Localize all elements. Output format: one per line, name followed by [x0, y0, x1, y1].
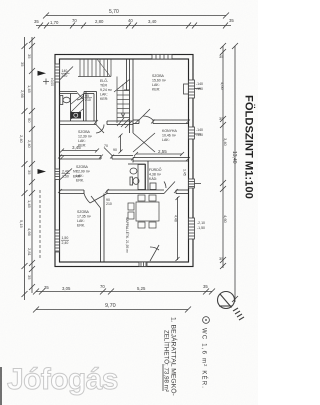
door bathroom: [164, 182, 175, 194]
room label eloter: [100, 78, 113, 101]
window right R1: [189, 80, 201, 98]
dining table: [136, 202, 159, 221]
window label 140/270: [62, 69, 68, 78]
dim line left C: [22, 37, 28, 300]
window label R1: [196, 82, 203, 91]
wall junction ticks: [58, 120, 190, 194]
wall interior hall right (stairs side): [130, 59, 134, 133]
paper noise: [0, 0, 1, 1]
dim line bottom H: [33, 307, 191, 313]
north circle: [218, 292, 235, 309]
level cross 1: [43, 79, 49, 85]
window right R3: [189, 218, 195, 239]
washer: [150, 183, 156, 190]
dim line right F: [232, 43, 238, 302]
room label konyha: [162, 129, 177, 142]
door WC: [77, 93, 84, 101]
door labels 70 90: [104, 144, 117, 152]
bathroom toilet: [130, 177, 139, 185]
wall kitchen bottom: [60, 156, 189, 163]
room label szoba A: [78, 130, 93, 148]
dim labels left C: [19, 62, 25, 229]
dim labels top B: [34, 18, 234, 25]
dim labels right E: [219, 54, 228, 261]
door top-right room: [139, 109, 153, 120]
dim vertical room A: [119, 134, 123, 154]
wall outer: [55, 55, 193, 267]
chairs: [128, 195, 156, 228]
window label 2,40/1,50: [62, 170, 81, 179]
dim line top A: [43, 13, 229, 19]
note circle wc: [203, 317, 210, 324]
scan edge left: [0, 367, 2, 405]
dim line right E: [220, 43, 226, 269]
room label furdo: [149, 167, 162, 181]
door corridor: [96, 125, 104, 134]
door bottom-left room: [84, 194, 107, 204]
wall interior corridor (thick): [60, 121, 134, 125]
dim 3,45 interior: [60, 149, 99, 153]
dim labels bottom G: [44, 284, 208, 291]
stairs rail wall: [124, 59, 130, 90]
dim line bottom G: [33, 289, 215, 295]
door label 95/210: [85, 94, 91, 102]
window left W1: [55, 64, 73, 82]
dim 2,55 interior kitchen: [134, 152, 184, 156]
interior dim 4,40: [176, 196, 180, 261]
wall interior WC top: [60, 92, 97, 122]
window top T1: [152, 55, 172, 60]
dim labels left D: [27, 54, 32, 280]
dim line left D: [29, 37, 35, 293]
stairs arrow: [97, 59, 125, 117]
window left W2: [55, 169, 72, 181]
entrance arrow 2: [38, 169, 47, 174]
toilet WC: [60, 96, 70, 105]
entrance arrow 1: [38, 71, 47, 76]
window label R2: [196, 128, 203, 137]
door label 90/210: [106, 198, 112, 206]
door X hall-kitchen: [133, 133, 155, 152]
north hatch: [233, 308, 244, 320]
room label szoba C: [77, 210, 92, 228]
wall interior shaft left: [70, 94, 72, 122]
wall stub right of pantry door: [176, 190, 189, 194]
note underline: [162, 364, 164, 391]
dim line top B: [36, 23, 231, 29]
room label szoba top-right: [152, 74, 167, 92]
bathroom walls: [128, 161, 148, 190]
window label R3: [197, 221, 205, 230]
appliance black: [71, 112, 82, 119]
door nappali: [91, 196, 101, 208]
window left W3: [55, 230, 60, 252]
door bottom terrace: [150, 245, 159, 262]
wall nappali left: [101, 194, 105, 263]
window label 150/240: [62, 236, 69, 245]
wall top-right room bottom: [133, 120, 189, 124]
stairs lower flight: [114, 77, 132, 129]
wall interior shaft right: [84, 92, 87, 122]
wall bottom-left room top: [60, 190, 165, 194]
radiator top-right room: [184, 84, 189, 94]
bathroom sink: [130, 168, 137, 174]
dashed property line: [39, 190, 41, 258]
room label szoba B: [76, 165, 91, 183]
stairs upper flight: [78, 59, 111, 77]
window right R2b: [189, 179, 202, 188]
window right R2: [189, 127, 202, 139]
bathtub: [138, 165, 145, 190]
shaft hatch: [71, 94, 83, 119]
window bottom B1: [139, 262, 147, 267]
door in kitchen bottom wall: [104, 148, 112, 156]
